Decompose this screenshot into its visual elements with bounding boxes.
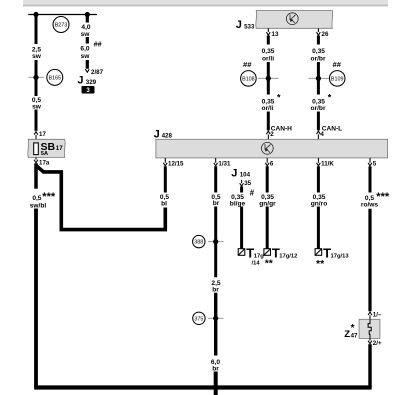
- svg-text:ro/ws: ro/ws: [361, 202, 379, 209]
- svg-text:104: 104: [240, 172, 251, 179]
- svg-text:5A: 5A: [41, 151, 49, 157]
- wire 0,35 gn/ro (pin 11/K): [317, 166, 320, 192]
- connector T17g/14: [238, 245, 264, 266]
- connector T17g/12: [264, 245, 297, 269]
- svg-text:4,0: 4,0: [81, 24, 90, 31]
- svg-text:sw/bl: sw/bl: [30, 202, 47, 209]
- node B165 dot: [33, 75, 38, 80]
- svg-text:17: 17: [39, 131, 46, 138]
- wire segment: [86, 37, 89, 44]
- ground bus wire: [34, 385, 372, 389]
- heater Z47 pin 1/- arrow: [368, 312, 372, 315]
- junction dot left: [33, 12, 38, 17]
- svg-text:br: br: [212, 365, 219, 372]
- svg-text:gn/ro: gn/ro: [311, 200, 327, 207]
- node label B273: [53, 17, 69, 33]
- fuse pin 17a arrow: [35, 157, 37, 159]
- junction dot right: [85, 12, 90, 17]
- svg-text:12/15: 12/15: [168, 160, 184, 167]
- svg-text:1/31: 1/31: [218, 160, 231, 167]
- wire 0,5 bl (pin 12/15): [164, 166, 167, 192]
- node B108 tick: [258, 77, 279, 79]
- control unit J428 box: [156, 139, 388, 158]
- svg-text:6: 6: [270, 160, 274, 167]
- node B109 tick: [309, 77, 330, 79]
- heater Z47 pin 2/+ arrow: [369, 338, 371, 340]
- J428 pin 2 arrow: [266, 131, 270, 134]
- node B108 dot: [266, 76, 271, 81]
- svg-text:2/+: 2/+: [373, 340, 382, 347]
- svg-text:**: **: [316, 258, 325, 270]
- svg-text:sw: sw: [81, 53, 91, 60]
- svg-text:bl/ge: bl/ge: [230, 200, 246, 207]
- node B109 dot: [316, 76, 321, 81]
- J428 pin 11/K: [317, 158, 319, 163]
- fuse SB17 box: [28, 139, 65, 157]
- svg-text:5: 5: [373, 160, 377, 167]
- wire 4,0 sw (right vertical): [86, 15, 89, 23]
- svg-text:B165: B165: [49, 76, 62, 82]
- svg-text:*: *: [277, 93, 281, 103]
- pin 2/67 arrow: [85, 69, 89, 72]
- svg-text:or/li: or/li: [262, 56, 274, 63]
- svg-text:388: 388: [194, 240, 203, 246]
- svg-text:bl: bl: [161, 200, 167, 207]
- node 388 tick: [208, 241, 224, 243]
- wire segment: [35, 60, 38, 96]
- node label 375: [193, 312, 205, 324]
- wire segment through B109: [317, 62, 320, 95]
- svg-text:17g/12: 17g/12: [279, 253, 297, 259]
- J533 pin 13: [267, 28, 269, 32]
- svg-text:or/br: or/br: [310, 56, 325, 63]
- node label B108: [241, 71, 257, 87]
- heater element symbol: [368, 319, 371, 338]
- node 388 dot: [213, 239, 218, 244]
- wire 0,35 or/br (upper): [317, 36, 320, 45]
- svg-text:CAN-L: CAN-L: [322, 125, 343, 132]
- connector T17g/13: [315, 245, 349, 269]
- wire 0,35 bl/ge: [240, 187, 243, 193]
- gateway J533 box: [256, 11, 333, 29]
- svg-text:Z: Z: [344, 329, 350, 340]
- svg-text:428: 428: [162, 133, 173, 140]
- svg-text:##: ##: [94, 39, 102, 48]
- svg-text:B108: B108: [242, 77, 255, 83]
- svg-text:13: 13: [272, 31, 279, 38]
- svg-text:***: ***: [376, 191, 390, 203]
- svg-text:17a: 17a: [39, 160, 50, 167]
- fuse SB17 pin 17 arrow: [34, 132, 38, 135]
- node B165 tick: [29, 76, 45, 78]
- svg-text:CAN-H: CAN-H: [271, 125, 292, 132]
- svg-text:sw: sw: [32, 53, 42, 60]
- svg-text:0,35: 0,35: [262, 48, 275, 55]
- svg-text:sw: sw: [32, 104, 42, 111]
- J428 pin 6: [266, 158, 268, 163]
- svg-text:329: 329: [86, 79, 97, 86]
- heater Z47 box: [359, 319, 380, 338]
- wire 0,5 br (pin 1/31): [214, 166, 217, 192]
- J533 diagnostic symbol: [286, 13, 298, 25]
- svg-text:##: ##: [333, 60, 342, 69]
- svg-text:26: 26: [322, 31, 329, 38]
- J428 pin 12/15: [164, 158, 166, 163]
- svg-text:*: *: [328, 93, 332, 103]
- svg-text:47: 47: [351, 332, 358, 339]
- svg-text:***: ***: [42, 191, 56, 203]
- svg-text:11/K: 11/K: [321, 160, 334, 167]
- svg-text:B273: B273: [55, 23, 68, 29]
- J428 pin 4 arrow: [317, 131, 321, 134]
- svg-text:J: J: [236, 19, 242, 31]
- node 375 tick: [208, 317, 224, 319]
- svg-text:#: #: [250, 188, 255, 197]
- svg-text:375: 375: [194, 316, 203, 322]
- svg-text:br: br: [213, 200, 220, 207]
- svg-text:##: ##: [243, 60, 252, 69]
- node 375 dot: [213, 316, 218, 321]
- top bus line: [28, 14, 97, 16]
- svg-text:J: J: [77, 75, 83, 87]
- wire 0,5 sw/bl (main left down): [34, 163, 38, 188]
- svg-text:or/li: or/li: [261, 105, 273, 112]
- J428 diagnostic symbol: [261, 142, 273, 154]
- svg-text:J: J: [231, 168, 237, 180]
- svg-text:17: 17: [56, 145, 63, 152]
- svg-text:533: 533: [244, 23, 255, 30]
- J533 pin 26: [317, 28, 319, 32]
- wire segment through B108: [267, 62, 270, 95]
- fuse element symbol: [34, 143, 39, 155]
- svg-text:1/–: 1/–: [373, 311, 382, 318]
- svg-text:B109: B109: [331, 77, 344, 83]
- node label 388: [193, 235, 205, 247]
- relay position 3 black box: [82, 86, 95, 94]
- svg-text:J: J: [154, 128, 160, 140]
- svg-text:17g/13: 17g/13: [331, 253, 350, 259]
- svg-text:2: 2: [270, 131, 274, 138]
- svg-text:0,5: 0,5: [32, 195, 41, 202]
- svg-text:or/br: or/br: [310, 105, 325, 112]
- svg-text:4: 4: [320, 131, 324, 138]
- J428 pin 5: [369, 158, 371, 163]
- svg-text:/14: /14: [252, 261, 261, 267]
- svg-text:sw: sw: [81, 31, 91, 38]
- svg-text:0,35: 0,35: [312, 48, 325, 55]
- node label B165: [47, 69, 63, 85]
- node label B109: [329, 71, 345, 87]
- wire 2,5 sw (left vertical): [35, 15, 38, 45]
- J428 pin 1/31: [215, 158, 217, 163]
- wire 0,35 or/li (upper): [267, 36, 270, 45]
- svg-text:br: br: [212, 286, 219, 293]
- svg-text:gn/gr: gn/gr: [259, 200, 276, 207]
- J104 pin 35 arrow: [241, 180, 243, 183]
- wire 0,35 gn/gr (pin 6): [266, 166, 269, 192]
- wire to ground bus: [34, 209, 38, 388]
- branch wire from 17a to pin 12/15: [36, 166, 165, 230]
- svg-text:35: 35: [244, 180, 251, 187]
- wire 0,5 ro/ws (pin 5): [369, 166, 372, 192]
- svg-text:2/87: 2/87: [91, 69, 104, 76]
- wire to ground bus: [368, 344, 371, 387]
- continuation box strip (top): [23, 0, 388, 5]
- svg-text:17g: 17g: [254, 253, 264, 259]
- svg-text:6,0: 6,0: [80, 46, 89, 53]
- svg-text:**: **: [265, 258, 274, 270]
